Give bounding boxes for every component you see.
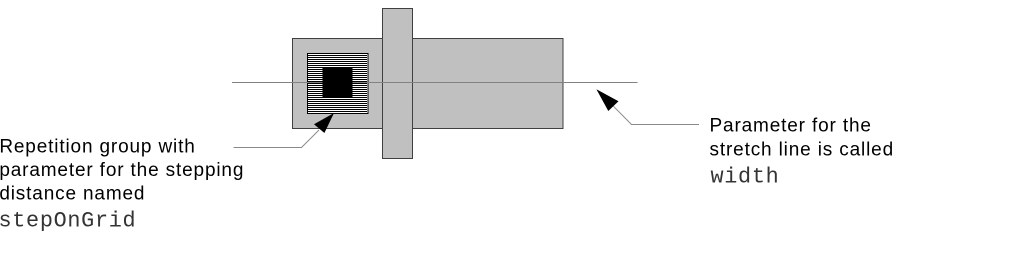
vertical flange bar (383, 9, 413, 159)
right leader line (613, 106, 699, 124)
hatch stripes (308, 56, 367, 112)
svg-text:Repetition group with: Repetition group with (0, 137, 196, 158)
inner black square (323, 68, 353, 99)
stretch line (width) (232, 82, 638, 84)
svg-text:stepOnGrid: stepOnGrid (0, 208, 136, 233)
right body rectangle (413, 39, 564, 129)
repetition group hatched square (308, 54, 369, 114)
left arrowhead (314, 113, 334, 133)
svg-text:stretch line is called: stretch line is called (710, 140, 895, 161)
right arrowhead (596, 89, 618, 111)
left leader line (234, 130, 320, 148)
left body rectangle (293, 39, 383, 129)
svg-text:width: width (711, 164, 780, 189)
svg-text:distance named: distance named (0, 183, 145, 204)
svg-text:Parameter for the: Parameter for the (710, 115, 872, 136)
svg-text:parameter for the stepping: parameter for the stepping (0, 160, 244, 181)
